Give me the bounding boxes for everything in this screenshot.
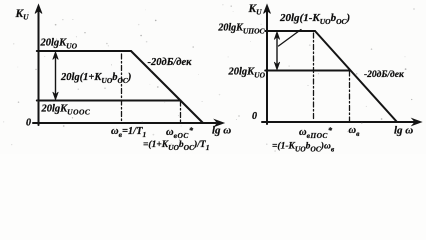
feedback rise double arrow right <box>276 34 278 68</box>
slope -20dB/dec left <box>131 51 203 123</box>
svg-text:lg ω: lg ω <box>394 125 413 137</box>
y-axis left <box>38 10 40 125</box>
svg-text:lg ω: lg ω <box>212 125 231 137</box>
x-axis arrowhead left <box>215 120 225 127</box>
top level 20lgKuo left <box>37 50 131 52</box>
svg-text:0: 0 <box>252 111 257 122</box>
dashed line at wBOC left <box>180 101 182 122</box>
svg-text:-20дБ/дек: -20дБ/дек <box>364 69 405 80</box>
dashed line at wB left <box>121 54 123 122</box>
x-axis left <box>33 122 216 124</box>
feedback depth double arrow left <box>55 54 57 98</box>
svg-text:0: 0 <box>26 118 31 129</box>
y-axis right <box>266 10 268 124</box>
top level 20lgKuPOC right <box>265 30 315 32</box>
leader line to label right <box>279 30 302 47</box>
dashed line at wBPOC right <box>313 33 315 121</box>
lower level 20lgKuooc left <box>37 100 181 102</box>
dashed line at wB right <box>349 71 351 121</box>
slope -20dB/dec right <box>315 31 397 122</box>
lower level 20lgKuo right <box>265 70 350 72</box>
y-axis arrowhead right <box>264 5 271 14</box>
x-axis right <box>262 121 414 123</box>
svg-text:-20дБ/дек: -20дБ/дек <box>148 57 193 68</box>
x-axis arrowhead right <box>412 119 422 126</box>
y-axis arrowhead left <box>35 5 42 14</box>
scan speckle noise <box>3 4 415 152</box>
paper background <box>0 0 426 154</box>
